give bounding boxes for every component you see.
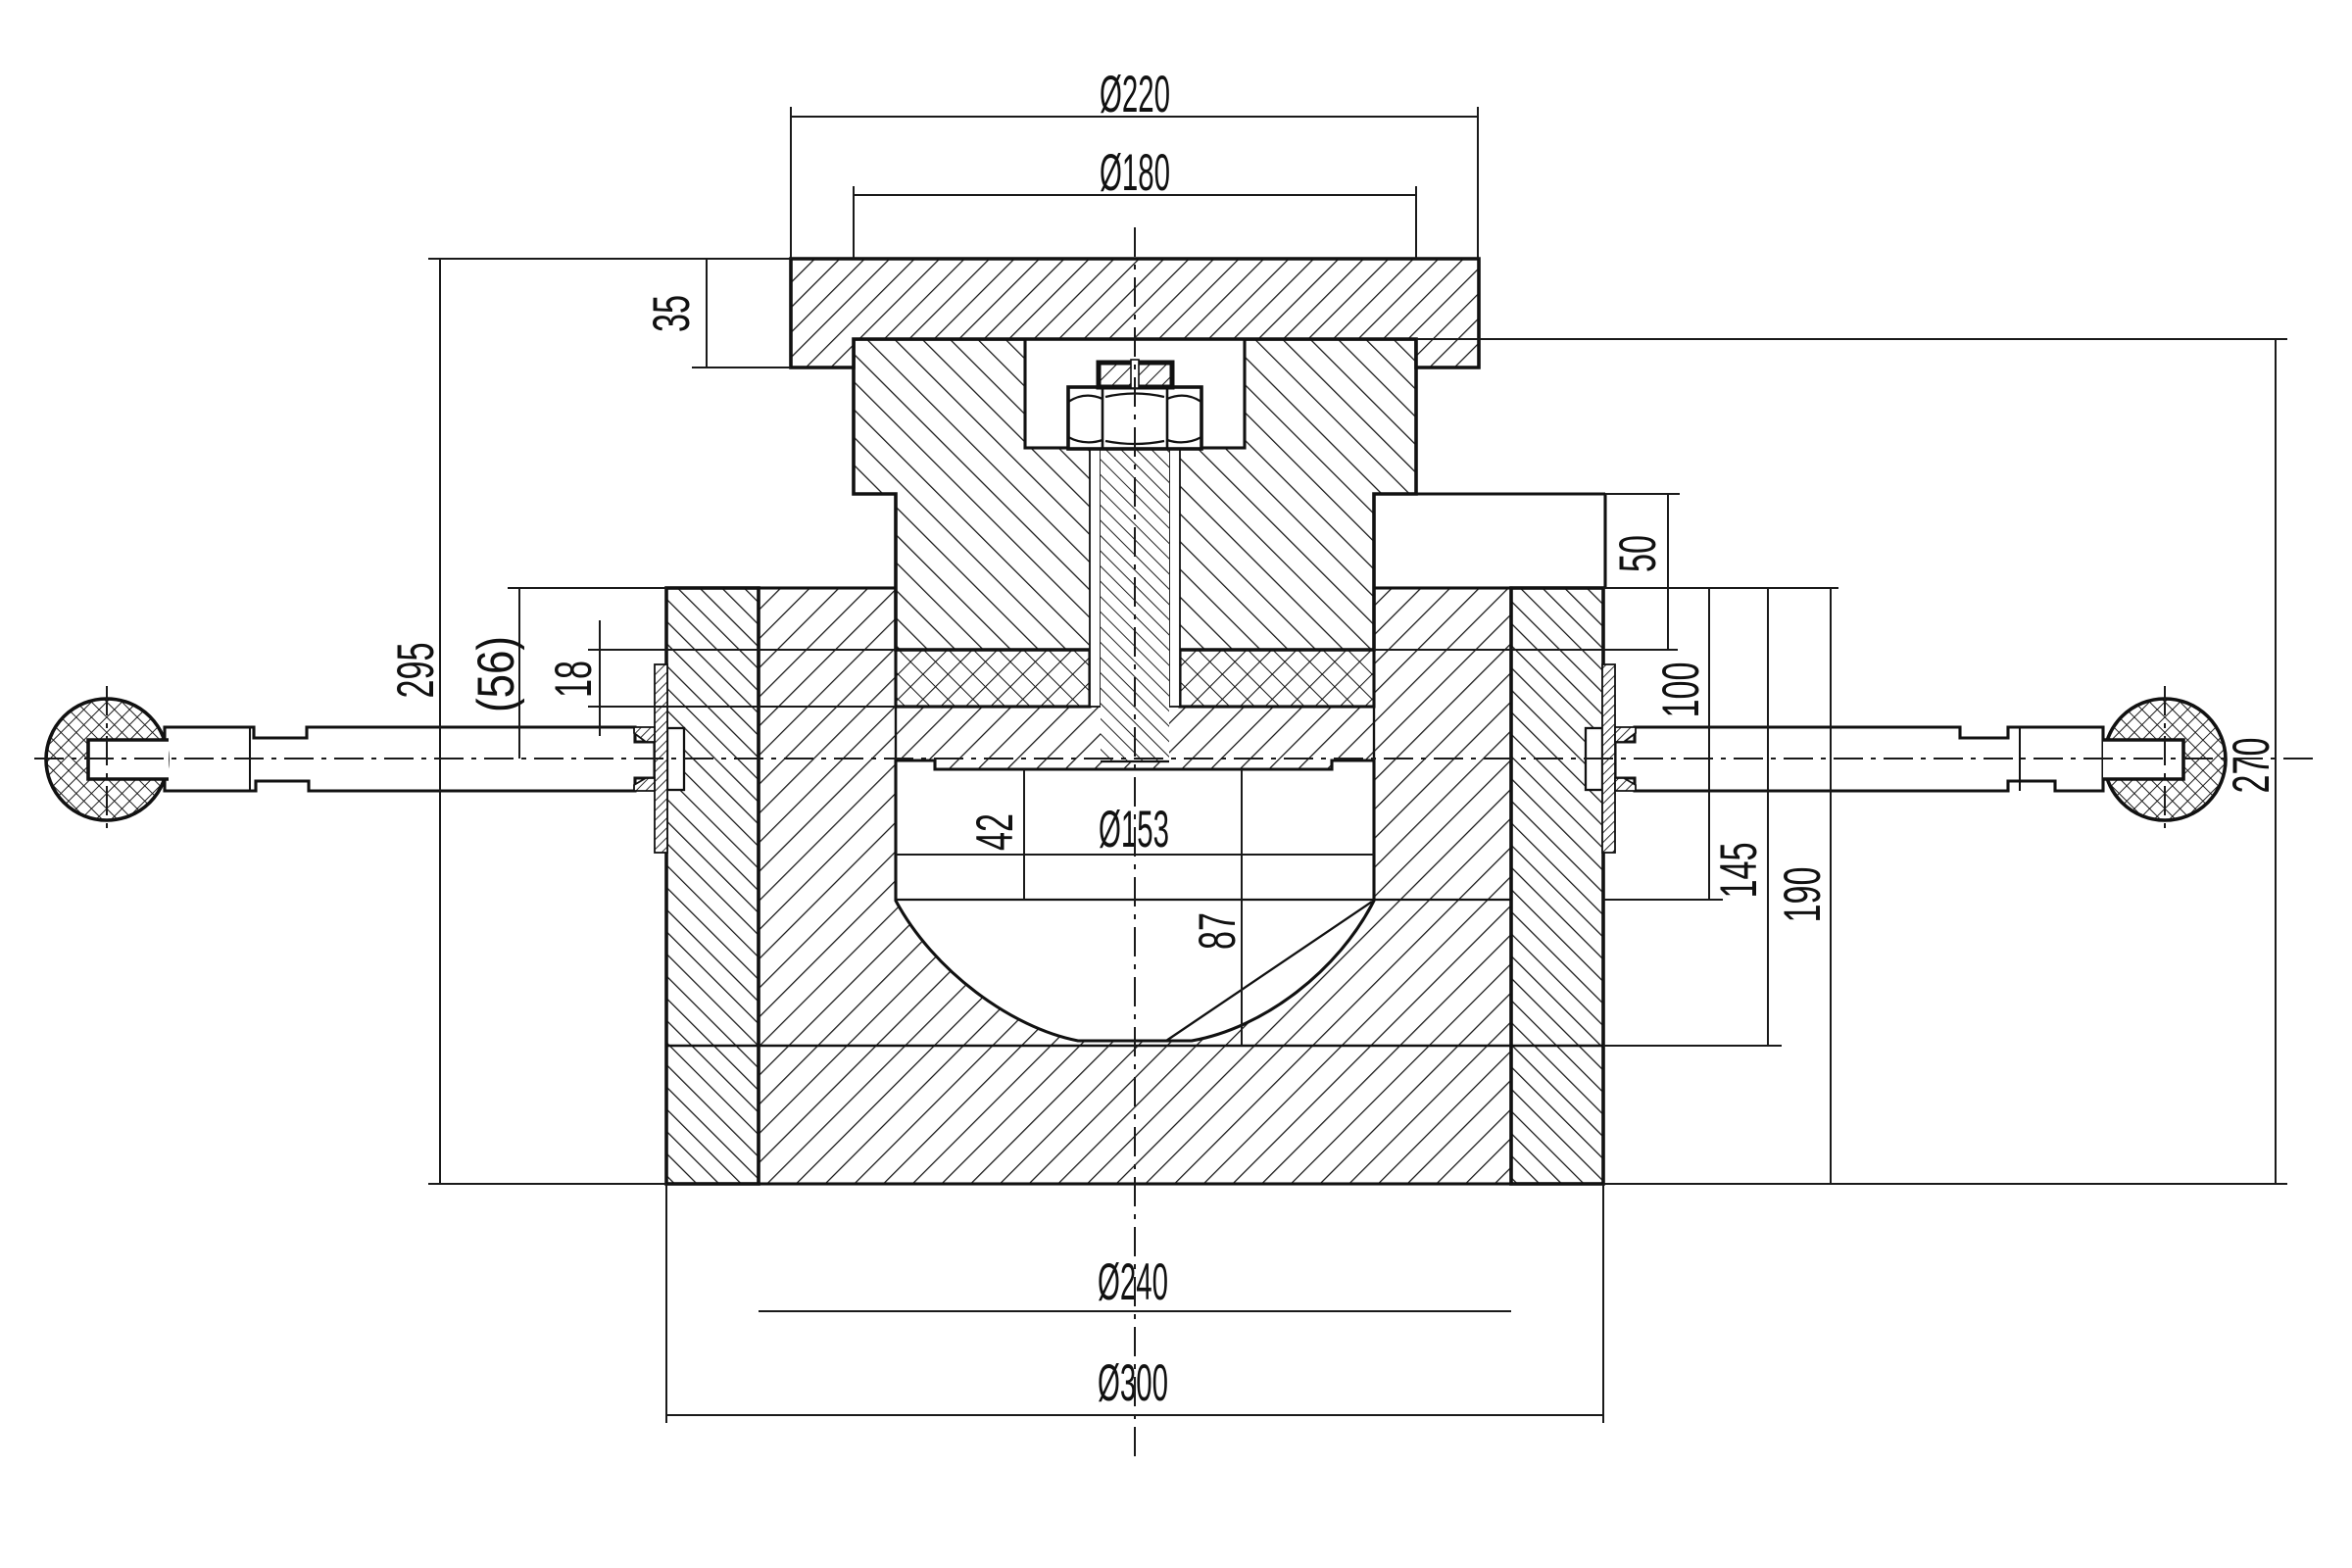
left ball handle (cross-hatched) [46, 699, 169, 820]
pad right (cross-hatched) [1180, 650, 1374, 707]
wire dim line 87 [1241, 769, 1243, 1046]
svg-text:50: 50 [1609, 535, 1667, 572]
wire dim line dia153 [896, 854, 1374, 856]
DIMENSIONS [428, 107, 2287, 1423]
punch / upper die holder (hatched \) [854, 339, 1416, 650]
wire extension y663 left [588, 649, 896, 651]
die insert ring (lower die, hatched /) [759, 588, 1511, 1184]
bore edge below pad left [895, 707, 897, 764]
svg-text:100: 100 [1652, 662, 1710, 718]
wire dim line 50 [1667, 494, 1669, 650]
svg-text:270: 270 [2223, 738, 2280, 794]
wire dim line dia300 [666, 1414, 1603, 1416]
pad left (cross-hatched) [896, 650, 1090, 707]
wire right ball centerline [2164, 686, 2166, 835]
wire dim line 18 [599, 620, 601, 736]
svg-text:Ø240: Ø240 [1098, 1253, 1168, 1311]
wire dim line 35 [706, 259, 708, 367]
wire extension y600 right [1603, 587, 1838, 589]
wire extension y504 right [1605, 493, 1680, 495]
wire extension y1208 right [1603, 1183, 2287, 1185]
svg-text:145: 145 [1710, 843, 1768, 899]
wire dim line 270 [2275, 339, 2277, 1184]
bolt shank column (hatched dense \) [1101, 448, 1169, 761]
die case left wall (hatched \) [666, 588, 759, 1184]
wire vertical axis centerline [1134, 227, 1136, 1462]
bore shoulder line y918 [896, 899, 1510, 901]
svg-text:Ø220: Ø220 [1100, 66, 1170, 123]
wire extension y600 left [508, 587, 666, 589]
bolt clearance channels [1090, 448, 1180, 707]
wire extension y346 right [1416, 338, 2287, 340]
wire dim line dia220 [791, 116, 1478, 118]
wire left ball centerline [106, 686, 108, 835]
wire dim line 190 [1830, 588, 1832, 1184]
wire dim line (56) [518, 588, 520, 759]
right rod / handle shaft [1615, 727, 2103, 791]
wire dim line 295 [439, 259, 441, 1184]
wire extension y721 left [588, 706, 896, 708]
wire extension y918 right [1603, 899, 1723, 901]
slotted screw head [1099, 360, 1172, 388]
left rod joint seam [249, 727, 251, 791]
wire extension y264 left [428, 258, 791, 260]
svg-text:295: 295 [387, 643, 445, 699]
wire extensions dia220 [790, 107, 792, 259]
CENTERLINES [34, 227, 2318, 1462]
svg-text:35: 35 [643, 295, 701, 332]
bolt recess (white pocket in punch) [1025, 339, 1245, 448]
left rod / handle shaft [165, 727, 655, 791]
left rod pocket in die wall [667, 728, 684, 790]
die cavity (white bore + funnel) [896, 760, 1374, 1041]
funnel cone chord line (right) [1166, 902, 1372, 1041]
svg-text:87: 87 [1189, 912, 1247, 950]
wire extension y663 right [1374, 649, 1678, 651]
svg-text:(56): (56) [467, 636, 525, 712]
die joint line y1067 [666, 1045, 1603, 1048]
die case right wall (hatched \) [1511, 588, 1603, 1184]
wire dim line 145 [1767, 588, 1769, 1046]
wire extensions dia180 [853, 186, 855, 259]
wire extensions dia300 [665, 1184, 667, 1423]
top plate flange (hatched /) [791, 259, 1479, 367]
svg-text:Ø300: Ø300 [1098, 1354, 1168, 1412]
right ball handle (cross-hatched) [2103, 699, 2226, 820]
right notch outline [1374, 494, 1605, 588]
wire extension y1067 right [1603, 1045, 1782, 1047]
wire extension y1208 left [428, 1183, 666, 1185]
wire horizontal axis centerline [34, 758, 2318, 759]
left retainer plate (dense hatch) [634, 664, 667, 853]
right rod joint seam [2019, 727, 2021, 791]
svg-text:190: 190 [1774, 867, 1832, 923]
wire extension y375 [692, 367, 791, 368]
svg-text:18: 18 [545, 661, 603, 698]
wire dim line dia180 [854, 194, 1416, 196]
wire dim line 42 [1023, 769, 1025, 900]
svg-text:Ø180: Ø180 [1100, 144, 1170, 202]
right retainer plate (dense hatch) [1602, 664, 1636, 853]
svg-text:42: 42 [966, 813, 1024, 851]
right rod pocket in die wall [1586, 728, 1602, 790]
wire dim line dia240 [759, 1310, 1511, 1312]
hex nut [1068, 387, 1201, 449]
bore edge below pad right [1373, 707, 1375, 764]
wire dim line 100 [1708, 588, 1710, 900]
